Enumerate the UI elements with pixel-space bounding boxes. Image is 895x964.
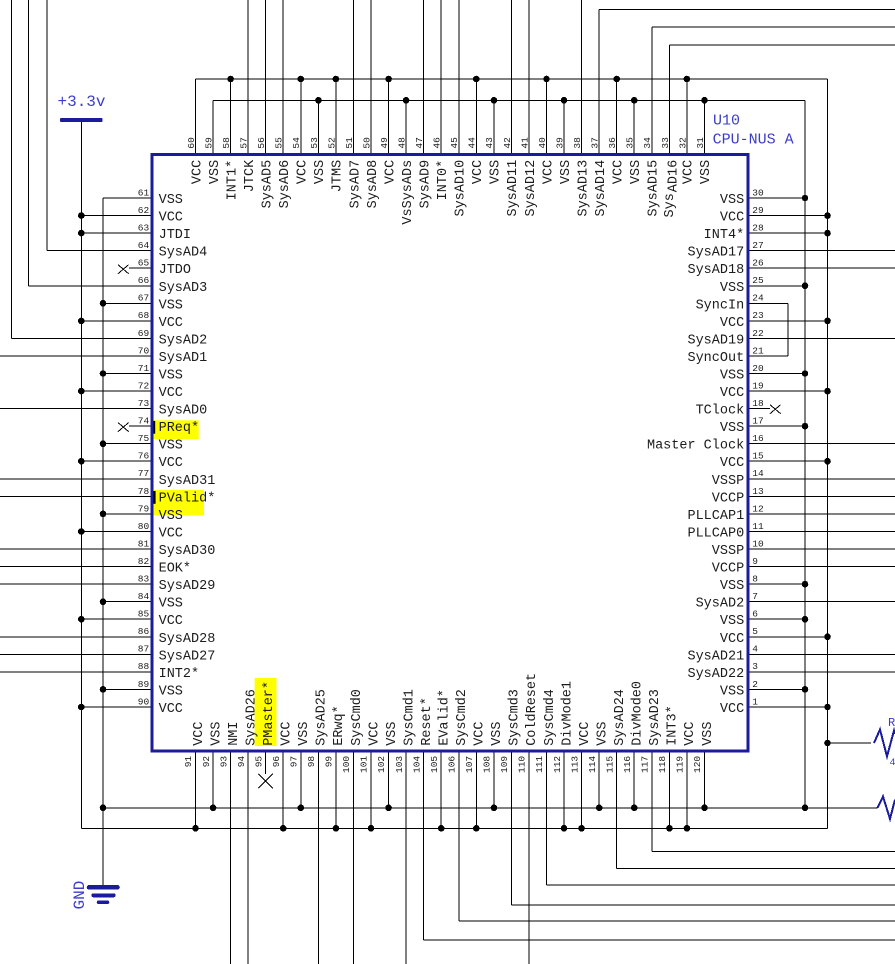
svg-text:69: 69 xyxy=(138,328,150,339)
svg-text:VSS: VSS xyxy=(720,421,744,436)
svg-text:VSS: VSS xyxy=(159,597,183,612)
svg-text:42: 42 xyxy=(502,137,513,149)
svg-text:NMI: NMI xyxy=(227,721,242,745)
svg-text:120: 120 xyxy=(692,756,703,773)
svg-text:94: 94 xyxy=(236,756,247,768)
svg-text:U10: U10 xyxy=(713,113,740,130)
svg-text:VSS: VSS xyxy=(159,298,183,313)
svg-text:79: 79 xyxy=(138,503,150,514)
svg-text:SysAD8: SysAD8 xyxy=(366,160,381,209)
svg-text:105: 105 xyxy=(429,756,440,773)
svg-text:VCC: VCC xyxy=(159,702,183,717)
svg-text:PReq*: PReq* xyxy=(159,421,200,436)
svg-text:SysAD28: SysAD28 xyxy=(159,632,216,647)
svg-text:109: 109 xyxy=(499,756,510,773)
svg-text:37: 37 xyxy=(590,137,601,148)
svg-text:112: 112 xyxy=(552,756,563,773)
svg-text:47: 47 xyxy=(414,137,425,148)
svg-text:21: 21 xyxy=(752,345,764,356)
svg-text:SysAD3: SysAD3 xyxy=(159,281,208,296)
svg-text:VSS: VSS xyxy=(313,160,328,184)
svg-text:SysAD11: SysAD11 xyxy=(506,160,521,217)
svg-text:VSS: VSS xyxy=(159,509,183,524)
svg-text:58: 58 xyxy=(221,137,232,149)
svg-text:29: 29 xyxy=(752,205,764,216)
svg-text:Sys: Sys xyxy=(663,193,678,217)
svg-text:VCC: VCC xyxy=(190,160,205,184)
svg-text:VSS: VSS xyxy=(159,684,183,699)
svg-text:VSS: VSS xyxy=(159,193,183,208)
svg-text:100: 100 xyxy=(341,756,352,773)
svg-text:SysAD24: SysAD24 xyxy=(613,689,628,746)
svg-text:VCC: VCC xyxy=(578,721,593,745)
svg-text:103: 103 xyxy=(394,756,405,773)
svg-text:48: 48 xyxy=(397,137,408,149)
svg-text:VCCP: VCCP xyxy=(712,491,744,506)
svg-text:INT3*: INT3* xyxy=(666,705,681,746)
svg-text:63: 63 xyxy=(138,223,150,234)
svg-text:INT4*: INT4* xyxy=(704,228,745,243)
svg-text:22: 22 xyxy=(752,328,764,339)
svg-text:70: 70 xyxy=(138,345,150,356)
svg-text:SysAD2: SysAD2 xyxy=(696,597,745,612)
svg-text:VSS: VSS xyxy=(720,369,744,384)
svg-text:SysAD25: SysAD25 xyxy=(315,689,330,746)
svg-text:34: 34 xyxy=(642,137,653,149)
svg-text:VSS: VSS xyxy=(297,721,312,745)
svg-text:31: 31 xyxy=(695,137,706,149)
svg-text:+3.3v: +3.3v xyxy=(58,93,106,111)
svg-text:53: 53 xyxy=(309,137,320,149)
svg-text:113: 113 xyxy=(569,756,580,773)
svg-text:Master Clock: Master Clock xyxy=(647,439,744,454)
svg-text:SysAD19: SysAD19 xyxy=(687,333,744,348)
svg-text:VCC: VCC xyxy=(720,386,744,401)
svg-text:16: 16 xyxy=(752,433,764,444)
svg-text:56: 56 xyxy=(256,137,267,149)
svg-text:14: 14 xyxy=(752,468,764,479)
svg-text:PLLCAP0: PLLCAP0 xyxy=(687,527,744,542)
svg-text:VCC: VCC xyxy=(471,160,486,184)
svg-text:77: 77 xyxy=(138,468,149,479)
svg-text:1: 1 xyxy=(752,696,758,707)
svg-text:EOK*: EOK* xyxy=(159,562,191,577)
svg-text:VCC: VCC xyxy=(720,632,744,647)
svg-text:SysCmd3: SysCmd3 xyxy=(508,689,523,746)
svg-text:VCC: VCC xyxy=(159,316,183,331)
svg-text:SysAD10: SysAD10 xyxy=(454,160,469,217)
svg-text:93: 93 xyxy=(218,756,229,768)
svg-text:117: 117 xyxy=(640,756,651,773)
svg-text:VCC: VCC xyxy=(612,160,627,184)
svg-text:VSS: VSS xyxy=(490,721,505,745)
svg-text:SysAD18: SysAD18 xyxy=(687,263,744,278)
svg-text:VsSysADs: VsSysADs xyxy=(401,160,416,225)
svg-text:VSS: VSS xyxy=(720,614,744,629)
svg-text:25: 25 xyxy=(752,275,764,286)
svg-text:CPU-NUS A: CPU-NUS A xyxy=(713,132,794,149)
svg-text:4: 4 xyxy=(890,758,895,769)
svg-text:JTDO: JTDO xyxy=(159,263,191,278)
svg-text:SysAD23: SysAD23 xyxy=(648,689,663,746)
svg-text:67: 67 xyxy=(138,293,149,304)
svg-text:JTDI: JTDI xyxy=(159,228,191,243)
svg-text:62: 62 xyxy=(138,205,150,216)
svg-text:13: 13 xyxy=(752,486,764,497)
svg-text:57: 57 xyxy=(239,137,250,148)
svg-text:VSSP: VSSP xyxy=(712,544,744,559)
svg-text:SysAD31: SysAD31 xyxy=(159,474,216,489)
svg-text:97: 97 xyxy=(289,756,300,767)
svg-text:55: 55 xyxy=(274,137,285,149)
svg-text:DivMode0: DivMode0 xyxy=(631,681,646,746)
svg-text:SysAD6: SysAD6 xyxy=(278,160,293,209)
svg-text:VCC: VCC xyxy=(159,456,183,471)
svg-text:VSS: VSS xyxy=(159,369,183,384)
svg-text:JTMS: JTMS xyxy=(331,160,346,192)
svg-text:18: 18 xyxy=(752,398,764,409)
svg-text:90: 90 xyxy=(138,696,150,707)
svg-text:VCC: VCC xyxy=(192,721,207,745)
svg-text:SysCmd4: SysCmd4 xyxy=(543,689,558,746)
svg-text:SysAD9: SysAD9 xyxy=(418,160,433,209)
svg-text:12: 12 xyxy=(752,503,764,514)
svg-text:46: 46 xyxy=(432,137,443,149)
svg-text:SysCmd0: SysCmd0 xyxy=(350,689,365,746)
svg-text:VCC: VCC xyxy=(720,211,744,226)
svg-text:39: 39 xyxy=(554,137,565,149)
svg-text:106: 106 xyxy=(446,756,457,773)
svg-text:40: 40 xyxy=(537,137,548,149)
svg-text:26: 26 xyxy=(752,258,764,269)
svg-text:VSSP: VSSP xyxy=(712,474,744,489)
svg-text:108: 108 xyxy=(482,756,493,773)
svg-text:VSS: VSS xyxy=(209,721,224,745)
svg-text:SysAD29: SysAD29 xyxy=(159,579,216,594)
svg-text:SysAD0: SysAD0 xyxy=(159,404,208,419)
svg-text:VSS: VSS xyxy=(596,721,611,745)
svg-text:VCC: VCC xyxy=(720,456,744,471)
svg-text:TClock: TClock xyxy=(696,404,745,419)
svg-text:VSS: VSS xyxy=(720,684,744,699)
svg-text:SysAD21: SysAD21 xyxy=(687,649,744,664)
svg-text:73: 73 xyxy=(138,398,150,409)
svg-text:72: 72 xyxy=(138,380,150,391)
svg-text:84: 84 xyxy=(138,591,150,602)
svg-text:92: 92 xyxy=(201,756,212,768)
svg-text:30: 30 xyxy=(752,187,764,198)
svg-text:38: 38 xyxy=(572,137,583,149)
svg-text:VCC: VCC xyxy=(720,316,744,331)
svg-text:65: 65 xyxy=(138,258,150,269)
svg-text:95: 95 xyxy=(253,756,264,768)
svg-text:VSS: VSS xyxy=(720,281,744,296)
svg-text:7: 7 xyxy=(752,591,758,602)
svg-text:R: R xyxy=(888,716,895,730)
svg-text:33: 33 xyxy=(660,137,671,149)
svg-text:SysAD26: SysAD26 xyxy=(245,689,260,746)
svg-text:VCC: VCC xyxy=(159,527,183,542)
svg-text:VCC: VCC xyxy=(541,160,556,184)
svg-text:110: 110 xyxy=(517,756,528,773)
svg-text:SysAD13: SysAD13 xyxy=(576,160,591,217)
svg-text:VCCP: VCCP xyxy=(712,562,744,577)
svg-text:76: 76 xyxy=(138,451,150,462)
svg-text:VCC: VCC xyxy=(720,702,744,717)
svg-text:71: 71 xyxy=(138,363,150,374)
svg-text:EValid*: EValid* xyxy=(438,689,453,746)
svg-text:68: 68 xyxy=(138,310,150,321)
svg-text:SysAD14: SysAD14 xyxy=(594,160,609,217)
svg-text:54: 54 xyxy=(291,137,302,149)
svg-text:VSS: VSS xyxy=(629,160,644,184)
svg-text:VSS: VSS xyxy=(559,160,574,184)
svg-text:SyncOut: SyncOut xyxy=(687,351,744,366)
svg-text:19: 19 xyxy=(752,380,764,391)
svg-text:115: 115 xyxy=(604,756,615,773)
svg-text:VSS: VSS xyxy=(720,193,744,208)
svg-text:SyncIn: SyncIn xyxy=(696,298,745,313)
svg-text:27: 27 xyxy=(752,240,763,251)
svg-text:15: 15 xyxy=(752,451,764,462)
svg-text:PValid*: PValid* xyxy=(159,491,216,506)
svg-text:44: 44 xyxy=(467,137,478,149)
svg-text:87: 87 xyxy=(138,644,149,655)
svg-text:VCC: VCC xyxy=(296,160,311,184)
svg-text:SysAD1: SysAD1 xyxy=(159,351,208,366)
svg-text:SysAD7: SysAD7 xyxy=(348,160,363,209)
svg-text:SysAD4: SysAD4 xyxy=(159,246,208,261)
svg-text:36: 36 xyxy=(607,137,618,149)
svg-text:98: 98 xyxy=(306,756,317,768)
svg-text:INT2*: INT2* xyxy=(159,667,200,682)
svg-text:VCC: VCC xyxy=(383,160,398,184)
svg-text:119: 119 xyxy=(675,756,686,773)
svg-text:45: 45 xyxy=(449,137,460,149)
svg-text:17: 17 xyxy=(752,416,763,427)
svg-text:96: 96 xyxy=(271,756,282,768)
svg-text:99: 99 xyxy=(324,756,335,768)
svg-text:20: 20 xyxy=(752,363,764,374)
svg-text:VCC: VCC xyxy=(159,614,183,629)
svg-text:PMaster*: PMaster* xyxy=(262,681,277,746)
svg-text:41: 41 xyxy=(519,137,530,149)
svg-text:86: 86 xyxy=(138,626,150,637)
svg-text:88: 88 xyxy=(138,661,150,672)
svg-text:AD16: AD16 xyxy=(666,160,681,192)
svg-text:8: 8 xyxy=(752,574,758,585)
svg-text:VSS: VSS xyxy=(489,160,504,184)
svg-text:ERwq*: ERwq* xyxy=(332,705,347,746)
svg-text:VCC: VCC xyxy=(159,386,183,401)
svg-text:GND: GND xyxy=(71,881,89,910)
svg-text:9: 9 xyxy=(752,556,758,567)
svg-text:85: 85 xyxy=(138,609,150,620)
svg-text:JTCK: JTCK xyxy=(243,159,258,192)
svg-text:107: 107 xyxy=(464,756,475,773)
svg-text:60: 60 xyxy=(186,137,197,149)
svg-text:ColdReset: ColdReset xyxy=(525,673,540,746)
svg-text:78: 78 xyxy=(138,486,150,497)
svg-text:VCC: VCC xyxy=(367,721,382,745)
svg-text:91: 91 xyxy=(183,756,194,768)
svg-text:104: 104 xyxy=(411,756,422,773)
svg-text:51: 51 xyxy=(344,137,355,149)
svg-text:83: 83 xyxy=(138,574,150,585)
svg-text:SysCmd2: SysCmd2 xyxy=(455,689,470,746)
svg-text:5: 5 xyxy=(752,626,758,637)
svg-text:23: 23 xyxy=(752,310,764,321)
svg-text:24: 24 xyxy=(752,293,764,304)
svg-text:75: 75 xyxy=(138,433,150,444)
svg-text:64: 64 xyxy=(138,240,150,251)
svg-text:Reset*: Reset* xyxy=(420,697,435,746)
svg-text:VSS: VSS xyxy=(701,721,716,745)
svg-text:43: 43 xyxy=(484,137,495,149)
svg-text:SysAD17: SysAD17 xyxy=(687,246,744,261)
svg-text:SysAD30: SysAD30 xyxy=(159,544,216,559)
svg-text:PLLCAP1: PLLCAP1 xyxy=(687,509,744,524)
svg-text:VSS: VSS xyxy=(208,160,223,184)
svg-text:VCC: VCC xyxy=(473,721,488,745)
svg-text:59: 59 xyxy=(204,137,215,149)
svg-text:10: 10 xyxy=(752,538,764,549)
svg-text:101: 101 xyxy=(359,756,370,773)
svg-text:82: 82 xyxy=(138,556,150,567)
svg-text:SysCmd1: SysCmd1 xyxy=(402,689,417,746)
svg-text:116: 116 xyxy=(622,756,633,773)
svg-text:VCC: VCC xyxy=(280,721,295,745)
svg-text:28: 28 xyxy=(752,223,764,234)
svg-text:6: 6 xyxy=(752,609,758,620)
svg-text:11: 11 xyxy=(752,521,764,532)
svg-text:SysAD15: SysAD15 xyxy=(647,160,662,217)
svg-text:2: 2 xyxy=(752,679,758,690)
svg-text:80: 80 xyxy=(138,521,150,532)
svg-text:SysAD2: SysAD2 xyxy=(159,333,208,348)
svg-text:VCC: VCC xyxy=(159,211,183,226)
svg-text:32: 32 xyxy=(677,137,688,149)
svg-text:SysAD12: SysAD12 xyxy=(524,160,539,217)
svg-text:VSS: VSS xyxy=(699,160,714,184)
svg-text:50: 50 xyxy=(361,137,372,149)
svg-text:VSS: VSS xyxy=(720,579,744,594)
svg-text:SysAD22: SysAD22 xyxy=(687,667,744,682)
svg-text:SysAD5: SysAD5 xyxy=(261,160,276,209)
svg-text:DivMode1: DivMode1 xyxy=(560,681,575,746)
svg-text:81: 81 xyxy=(138,538,150,549)
svg-text:114: 114 xyxy=(587,756,598,773)
svg-text:74: 74 xyxy=(138,416,150,427)
svg-text:INT1*: INT1* xyxy=(225,160,240,201)
svg-text:3: 3 xyxy=(752,661,758,672)
svg-text:VCC: VCC xyxy=(682,160,697,184)
svg-text:VCC: VCC xyxy=(683,721,698,745)
svg-text:89: 89 xyxy=(138,679,150,690)
svg-text:VSS: VSS xyxy=(385,721,400,745)
svg-text:118: 118 xyxy=(657,756,668,773)
svg-text:52: 52 xyxy=(326,137,337,149)
svg-text:102: 102 xyxy=(376,756,387,773)
svg-text:49: 49 xyxy=(379,137,390,149)
svg-text:35: 35 xyxy=(625,137,636,149)
svg-text:66: 66 xyxy=(138,275,150,286)
svg-text:SysAD27: SysAD27 xyxy=(159,649,216,664)
svg-text:VSS: VSS xyxy=(159,439,183,454)
svg-text:61: 61 xyxy=(138,187,150,198)
svg-text:4: 4 xyxy=(752,644,758,655)
svg-text:INT0*: INT0* xyxy=(436,160,451,201)
svg-text:111: 111 xyxy=(534,756,545,773)
